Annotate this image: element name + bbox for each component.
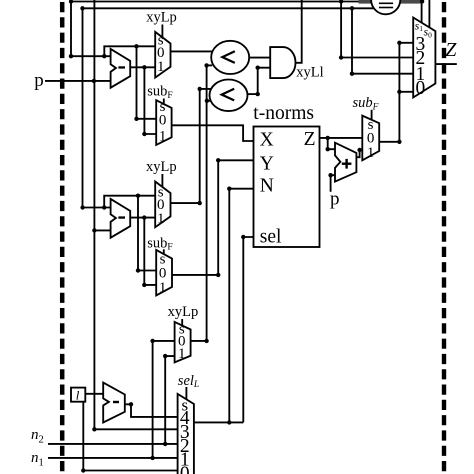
junction subF3 output riser bbox=[397, 140, 401, 144]
t-norms block bbox=[254, 127, 320, 248]
wire comparator C2 output bbox=[248, 93, 258, 95]
junction comparator C2 lower input bbox=[205, 99, 209, 103]
subtractor U1 bbox=[111, 49, 131, 88]
wire adder output to mux subF3 input 1 bbox=[356, 150, 362, 157]
wire mux subF2 select bbox=[163, 249, 165, 255]
wire top bus B bbox=[83, 7, 376, 9]
junction Z line adder tap bbox=[326, 136, 330, 140]
wire mux xyLp3 select bbox=[181, 319, 183, 326]
svg-text:1: 1 bbox=[367, 145, 375, 161]
wire mux subF1 select bbox=[163, 99, 165, 105]
junction output mux input3 elbow bbox=[397, 41, 401, 45]
wire riser to mux subF1 input 0 bbox=[137, 46, 157, 119]
wire mux xyLp2 output bbox=[171, 202, 200, 204]
svg-text:X: X bbox=[260, 130, 274, 151]
wire mux xyLp1 output to comparator C1 bbox=[171, 50, 214, 52]
labels mux xyLp1 s 0 1 bbox=[157, 33, 165, 75]
AND gate xyLl bbox=[270, 47, 295, 78]
mux subF3 bbox=[362, 116, 379, 161]
wire riser to mux subF2 input 1 bbox=[144, 218, 156, 285]
junction subtractor1 top tap bbox=[102, 54, 106, 58]
svg-text:xyLp: xyLp bbox=[168, 304, 199, 320]
junction output mux input2 elbow bbox=[339, 55, 343, 59]
junction output mux input1 elbow bbox=[350, 72, 354, 76]
wire n1 riser to mux xyLp3 input 0 bbox=[153, 341, 175, 458]
wire l box output to subtractor3 bbox=[85, 393, 103, 395]
wire subtractor1 output to mux xyLp1 input 1 bbox=[130, 66, 155, 68]
junction C2 upper input elbow bbox=[198, 87, 202, 91]
wire comparator C2 lower input stub bbox=[207, 100, 211, 102]
junction p line column C bbox=[92, 79, 96, 83]
wire riser A to subtractor1 top input bbox=[71, 2, 111, 57]
plus sign of adder U4 bbox=[342, 159, 352, 169]
wire riser C2 output to AND gate input 2 bbox=[258, 68, 271, 94]
wire branch to mux xyLp1 input 0 bbox=[104, 46, 155, 56]
svg-text:sel: sel bbox=[260, 226, 282, 247]
svg-text:Z: Z bbox=[304, 129, 316, 150]
wire select s0 of output mux bbox=[428, 0, 430, 28]
svg-text:1: 1 bbox=[157, 211, 165, 227]
junction subtractor3 output bbox=[129, 402, 133, 406]
wire subtractor2 output to mux xyLp2 input 1 bbox=[130, 217, 155, 219]
mux subF2 bbox=[156, 250, 172, 296]
junction p2 riser elbow bbox=[328, 173, 332, 177]
junction mux xyLp2 output elbow bbox=[198, 201, 202, 205]
labels selL mux s 4 3 2 1 0 bbox=[180, 395, 190, 474]
wire input n1 to selL mux input 1 bbox=[48, 457, 178, 459]
comparator C1 less-than bbox=[211, 41, 249, 74]
junction top bus B left bbox=[80, 6, 84, 10]
junction selL output N riser bbox=[227, 420, 231, 424]
wire riser bus A to output mux input 2 bbox=[341, 2, 413, 58]
wire p column to selL mux input 3 bbox=[94, 0, 177, 429]
mux selL bbox=[178, 394, 194, 474]
svg-text:n2: n2 bbox=[31, 427, 44, 446]
wire select s1 of output mux bbox=[421, 1, 423, 22]
wire output mux input 3 row bbox=[399, 42, 413, 44]
wire n2 riser to mux xyLp3 input 1 bbox=[165, 356, 174, 444]
svg-text:xyLp: xyLp bbox=[146, 10, 177, 26]
output mux 4to1 bbox=[413, 18, 435, 98]
wire riser selL output to t-norms N bbox=[229, 189, 253, 423]
junction sel elbow bbox=[241, 235, 245, 239]
svg-text:0: 0 bbox=[416, 78, 426, 99]
wire riser subF3 output to output mux inputs 0 and 3 bbox=[398, 43, 400, 142]
mux subF1 bbox=[156, 100, 171, 145]
junction bus B riser R2 bbox=[350, 6, 354, 10]
equality sign bars bbox=[379, 3, 393, 9]
junction riser A elbow bbox=[69, 54, 73, 58]
svg-text:t-norms: t-norms bbox=[253, 103, 314, 124]
junction AND input elbow bbox=[256, 66, 260, 70]
svg-text:xyLp: xyLp bbox=[146, 159, 177, 175]
svg-text:subF: subF bbox=[147, 235, 172, 252]
labels mux xyLp2 s 0 1 bbox=[157, 185, 165, 227]
constant l box bbox=[71, 388, 85, 402]
junction mux xyLp3 input0 elbow bbox=[150, 339, 154, 343]
minus sign of subtractor U2 bbox=[118, 216, 125, 218]
labels mux subF3 s 0 1 bbox=[367, 117, 375, 161]
junction top bus A left bbox=[69, 0, 73, 4]
svg-text:n1: n1 bbox=[31, 450, 44, 469]
junction n1 line riser bbox=[150, 456, 154, 460]
junction mux subF2 input0 bbox=[136, 268, 140, 272]
junction mux xyLp1 input0 tap bbox=[134, 44, 138, 48]
mux xyLp1 bbox=[155, 32, 170, 78]
svg-text:1: 1 bbox=[159, 280, 167, 296]
junction subtractor2 bottom tap bbox=[92, 228, 96, 232]
svg-text:N: N bbox=[260, 176, 274, 197]
junction riser B elbow bbox=[80, 205, 84, 209]
svg-text:subF: subF bbox=[353, 95, 379, 112]
wire mux xyLp1 select bbox=[161, 25, 163, 38]
junction register bar output s1 bbox=[420, 0, 424, 4]
junction output mux input0 tap bbox=[397, 90, 401, 94]
junction mux xyLp3 input1 elbow bbox=[163, 354, 167, 358]
labels mux subF2 s 0 1 bbox=[159, 251, 167, 296]
svg-text:0: 0 bbox=[159, 113, 167, 129]
svg-text:xyLl: xyLl bbox=[296, 65, 323, 81]
wire input p2 to adder bottom input bbox=[331, 175, 335, 192]
wire subtractor3 output to selL mux input 4 bbox=[125, 404, 178, 417]
junction selL input3 elbow bbox=[92, 427, 96, 431]
wire riser to mux subF1 input 1 bbox=[144, 67, 156, 134]
wire mux subF3 select bbox=[371, 110, 373, 120]
junction mux xyLp3 output column bbox=[204, 339, 208, 343]
svg-text:1: 1 bbox=[178, 346, 186, 362]
svg-text:1: 1 bbox=[157, 59, 165, 75]
wire riser B to subtractor2 top input bbox=[83, 8, 111, 207]
wire riser to mux subF2 input 0 bbox=[138, 196, 156, 271]
wire output Z bbox=[435, 63, 456, 65]
comparator equality circle bbox=[371, 0, 400, 14]
junction subtractor1 output tap bbox=[142, 65, 146, 69]
border dashed left bbox=[60, 0, 65, 474]
junction N elbow bbox=[227, 187, 231, 191]
junction subtractor2 output tap bbox=[142, 215, 146, 219]
wire mux xyLp3 output bbox=[191, 340, 207, 342]
svg-text:0: 0 bbox=[180, 463, 190, 474]
border dashed right bbox=[442, 0, 446, 474]
mux xyLp2 bbox=[155, 182, 170, 228]
wire mux subF2 output bbox=[172, 274, 218, 276]
labels output mux 3 2 1 0 bbox=[416, 34, 426, 99]
wire t-norms Z output to mux subF3 input 0 bbox=[320, 137, 363, 139]
junction Y elbow bbox=[216, 158, 220, 162]
wire input p to subtractor1 bbox=[45, 80, 111, 82]
wire top bus A bbox=[71, 1, 360, 3]
wire branch Z to adder top input bbox=[328, 138, 335, 149]
svg-text:p: p bbox=[330, 188, 340, 209]
wire selL mux output bbox=[194, 421, 243, 423]
junction mux subF2 input1 bbox=[142, 283, 146, 287]
junction mux subF1 input0 bbox=[134, 117, 138, 121]
wire riser mux xyLp2 output to comparator C2 upper input bbox=[200, 89, 212, 203]
wire mux subF1 output to t-norms X bbox=[171, 125, 253, 141]
register bar top right bbox=[359, 0, 423, 4]
junction subF2 output Y riser bbox=[216, 273, 220, 277]
wire riser bus B to output mux input 1 bbox=[352, 8, 413, 73]
svg-text:l: l bbox=[76, 388, 80, 403]
wire shared line to comparators C1 C2 from mux xyLp3 bbox=[206, 65, 208, 341]
wire l box to selL mux input 0 bbox=[83, 402, 177, 471]
label less-than C1 bbox=[222, 51, 235, 63]
svg-text:1: 1 bbox=[159, 129, 167, 145]
junction mux xyLp2 input0 tap bbox=[136, 194, 140, 198]
subtractor U3 bbox=[103, 383, 125, 423]
svg-text:Z: Z bbox=[445, 39, 457, 61]
wire AND gate output to top bbox=[295, 0, 301, 63]
wire output mux input 0 row bbox=[399, 91, 413, 93]
junction subtractor2 top tap bbox=[102, 205, 106, 209]
subtractor U2 bbox=[111, 199, 131, 238]
junction adder output elbow bbox=[357, 148, 361, 152]
svg-text:p: p bbox=[34, 70, 44, 91]
labels mux subF1 s 0 1 bbox=[159, 99, 167, 145]
junction mux subF1 input1 bbox=[142, 132, 146, 136]
mux xyLp3 bbox=[175, 322, 191, 363]
wire mux subF3 output bbox=[379, 141, 399, 143]
junction C2 output elbow bbox=[256, 92, 260, 96]
junction selL input0 elbow bbox=[81, 468, 85, 472]
wire input n2 to selL mux input 2 bbox=[48, 443, 178, 445]
wire riser selL output to t-norms sel bbox=[243, 237, 253, 422]
svg-text:Y: Y bbox=[260, 154, 274, 175]
adder U4 bbox=[335, 143, 356, 182]
wire mux xyLp2 select bbox=[161, 174, 163, 187]
wire selL mux select bbox=[185, 387, 187, 400]
minus sign of subtractor U1 bbox=[118, 66, 125, 68]
label less-than C2 bbox=[222, 89, 235, 101]
svg-text:selL: selL bbox=[178, 373, 199, 390]
minus sign of subtractor U3 bbox=[113, 401, 119, 403]
comparator C2 less-than bbox=[210, 80, 248, 112]
junction n2 line riser bbox=[163, 442, 167, 446]
wire comparator C1 lower input stub bbox=[207, 64, 213, 66]
junction bus A riser R1 bbox=[339, 0, 343, 4]
wire branch to mux xyLp2 input 0 bbox=[104, 196, 155, 208]
junction comparator C1 lower input bbox=[204, 63, 208, 67]
wire riser to t-norms Y bbox=[218, 160, 253, 275]
wire comparator C1 output to AND gate bbox=[249, 57, 270, 59]
wire p column to subtractor2 bottom input bbox=[94, 229, 110, 231]
junction adder top input elbow bbox=[326, 147, 330, 151]
labels mux xyLp3 s 0 1 bbox=[178, 322, 186, 363]
